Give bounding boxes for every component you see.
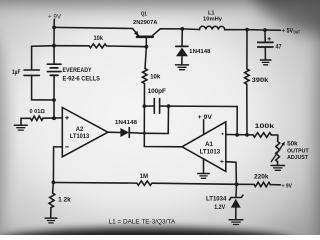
svg-text:50k: 50k — [287, 141, 298, 147]
capacitor C3 + mark — [268, 38, 271, 40]
wire 1M to A1 input node — [152, 183, 237, 184]
capacitor C3 plates — [258, 41, 273, 43]
svg-text:LT1034: LT1034 — [206, 197, 227, 203]
wire A1 top input to node — [226, 134, 253, 136]
resistor R3 1.2k — [49, 193, 55, 208]
resistor R5 10k (vertical) — [142, 69, 147, 84]
svg-text:390k: 390k — [252, 78, 269, 84]
svg-text:+ 9V: + 9V — [48, 13, 62, 20]
wire rail 390k node to 47uF node — [247, 29, 265, 31]
wire 390k down to A1 node — [246, 84, 248, 135]
svg-text:100k: 100k — [255, 124, 275, 130]
node: Q1 base junction — [145, 45, 149, 49]
zener D3 triangle — [231, 199, 241, 208]
svg-text:L1: L1 — [208, 10, 215, 16]
diode D1 triangle — [176, 48, 188, 57]
wire pot to ground — [277, 162, 279, 165]
ground (pot) — [271, 165, 285, 167]
svg-text:A2: A2 — [76, 127, 84, 133]
ground (D1) — [176, 64, 189, 66]
transistor Q1 base stub down — [145, 38, 147, 47]
wire A1 +9V power stub — [203, 120, 205, 135]
diode D1 cathode bar — [176, 45, 188, 47]
ground (C3) — [260, 59, 271, 61]
zener D3 bar with tails — [229, 195, 243, 200]
node: battery bottom — [52, 98, 56, 102]
op-amp A1 LT1013 triangle (points left) — [182, 122, 226, 172]
inductor L1 10mHy — [200, 26, 225, 29]
ground (1.2k) — [45, 217, 57, 219]
svg-text:47: 47 — [276, 45, 283, 51]
wire rail from node to inductor — [182, 28, 199, 31]
node: A1 top input right / 390k — [245, 133, 249, 137]
svg-text:0 01Ω: 0 01Ω — [30, 109, 46, 115]
capacitor C2 100pF plates — [153, 99, 155, 114]
svg-text:LT1013: LT1013 — [200, 150, 221, 156]
battery BT1 stub bottom — [53, 75, 55, 100]
diode D2 1N4148 (series) — [120, 128, 129, 137]
wire cap bottom to battery bottom node — [32, 75, 54, 100]
capacitor C1 1uF plates — [24, 69, 39, 71]
resistor R3 1.2k lead — [52, 182, 55, 193]
svg-text:1.2V: 1.2V — [214, 205, 225, 211]
resistor R6 390k: lead from rail — [246, 30, 248, 69]
battery BT1 stub top — [53, 46, 55, 64]
node +9V top-left supply stub — [53, 20, 55, 28]
svg-text:+ 5V: + 5V — [282, 27, 294, 34]
wire node X right jog up to 100pF right — [144, 106, 168, 133]
node: +9V rail tap — [52, 26, 56, 30]
wire shunt to A2 + input — [43, 117, 62, 119]
wire battery node down to sense node — [53, 100, 55, 118]
wire 100pF leads — [144, 105, 154, 107]
svg-text:10k: 10k — [150, 73, 161, 80]
node: rail / catch diode — [180, 27, 184, 31]
svg-text:+ 9V: + 9V — [198, 115, 212, 121]
svg-text:OUT: OUT — [293, 30, 300, 35]
resistor R4 1M — [137, 181, 152, 186]
wire vertical +9V node down to 10k rail — [53, 27, 55, 45]
ground (shunt) — [14, 124, 27, 126]
resistor R6 390k — [245, 69, 250, 84]
wire vertical 10k to 100pF node — [143, 84, 145, 107]
wire A1 bottom input right and down — [226, 162, 237, 185]
wire rail to +5V out — [265, 29, 280, 31]
svg-text:ADJUST: ADJUST — [287, 155, 309, 161]
resistor R9 220k — [254, 182, 270, 187]
svg-text:E-92-6 CELLS: E-92-6 CELLS — [63, 75, 101, 82]
svg-text:1N4148: 1N4148 — [115, 120, 137, 126]
op-amp A2 - mark — [66, 146, 69, 148]
wire A2 - input feedback down — [53, 147, 62, 183]
transistor Q1 collector segment + rail to catch diode node — [152, 29, 183, 37]
wire Q1 base junction down to vertical 10k — [145, 47, 146, 69]
wire battery branch top — [32, 46, 54, 70]
svg-text:1µF: 1µF — [12, 70, 21, 76]
svg-text:1M: 1M — [140, 174, 148, 180]
wire diode cathode to node X — [129, 132, 144, 135]
resistor R9 220k lead — [237, 183, 255, 185]
wire node X jog down to A1 output apex — [144, 106, 182, 147]
potentiometer arrow — [271, 145, 283, 162]
wire shunt left lead + ground stub — [21, 118, 31, 125]
svg-text:10k: 10k — [94, 36, 104, 42]
svg-text:+ 9V: + 9V — [282, 184, 293, 190]
svg-text:LT1013: LT1013 — [70, 134, 90, 140]
svg-text:Q1: Q1 — [141, 11, 147, 17]
op-amp A2 LT1013 triangle — [62, 108, 108, 157]
potentiometer R8 50k — [276, 141, 280, 161]
battery BT1 plates (EVEREADY E-92 cells) — [47, 63, 61, 65]
zener D3 LT1034: stub — [235, 184, 238, 197]
resistor R2 0.01 ohm shunt — [31, 116, 44, 121]
node: 10k rail tap — [52, 44, 56, 48]
node: A1 top input left — [235, 133, 239, 137]
wire 100pF right node to A1 - input (top route) — [169, 106, 238, 135]
resistor R1 10k (base drive) — [89, 44, 107, 48]
svg-text:2N2907A: 2N2907A — [133, 20, 157, 26]
wire 100k to pot — [271, 135, 278, 141]
op-amp A1 + mark (bottom input) — [221, 161, 224, 163]
svg-text:220k: 220k — [254, 174, 269, 180]
node: 100pF right — [167, 104, 171, 108]
transistor Q1 base bar — [137, 35, 153, 38]
svg-text:100pF: 100pF — [148, 89, 167, 95]
svg-text:A1: A1 — [205, 142, 214, 148]
node: rail / 47uF — [263, 28, 267, 32]
ground (zener) — [229, 219, 243, 221]
node: rail / 390k — [245, 28, 249, 32]
capacitor C3 47uF: stub from rail — [264, 30, 266, 42]
svg-text:EVEREADY: EVEREADY — [63, 67, 93, 74]
transistor Q1 emitter arrow — [134, 31, 139, 36]
svg-text:L1 = DALE TE-3/Q3/TA: L1 = DALE TE-3/Q3/TA — [109, 219, 176, 225]
op-amp A2 + mark — [66, 117, 69, 119]
node: shunt / A2+ — [52, 116, 56, 120]
wire A2 output to diode — [108, 131, 121, 133]
svg-text:OUTPUT: OUTPUT — [287, 148, 309, 154]
wire 1M line left segment — [53, 182, 136, 185]
wire 1.2k to ground — [50, 208, 52, 218]
svg-text:1 2k: 1 2k — [58, 198, 71, 204]
wire 10k rail to Q1 base junction — [108, 45, 147, 48]
svg-text:10mHy: 10mHy — [203, 17, 223, 23]
node: 100pF left — [143, 104, 147, 108]
wire top rail left segment to Q1 emitter — [54, 27, 139, 36]
wire D1 anode to ground — [181, 56, 183, 64]
wire rail inductor to 390k node — [225, 29, 247, 31]
node: 1M / 220k / zener — [235, 182, 239, 186]
wire 10k rail lead-in — [54, 45, 89, 47]
node: A2 feedback / 1.2k / 1M — [52, 181, 56, 185]
ground (A1) — [198, 173, 209, 175]
op-amp A1 - mark (top input) — [222, 133, 224, 135]
wire zener anode to ground — [235, 208, 237, 220]
wire C3 to ground — [264, 47, 266, 60]
resistor R7 100k — [253, 133, 271, 138]
schematic ink — [14, 20, 285, 225]
diode D1 1N4148 catch: stub from rail — [181, 29, 183, 46]
wire 220k to +9V — [270, 184, 280, 186]
wire A1 ground stub — [203, 159, 205, 173]
svg-text:1N4148: 1N4148 — [189, 49, 210, 55]
node X: diode/feedback cross — [143, 132, 146, 135]
